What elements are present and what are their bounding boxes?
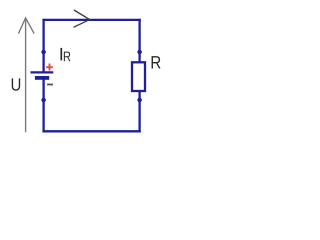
wire top [42,19,140,21]
wire bottom [42,130,140,132]
battery source negative plate [35,76,49,80]
current direction arrowhead on top wire [74,10,90,27]
label U [12,78,20,90]
wire right lower [138,91,140,132]
resistor R body [132,62,145,91]
battery plus sign [46,64,53,71]
voltage arrow U shaft [25,19,27,133]
node junction dot right top [137,50,142,55]
node junction dot left top [41,50,46,55]
node junction dot right bottom [137,98,142,103]
wire left lower [42,78,44,132]
label R subscript of IR [64,52,71,62]
wire left upper [42,19,44,73]
label R of resistor [152,56,161,68]
voltage arrow U head [18,18,34,34]
label I of IR [60,48,62,60]
battery source positive plate [31,71,54,73]
wire right upper [138,19,140,63]
node junction dot left bottom [41,98,46,103]
battery minus sign [47,84,53,86]
